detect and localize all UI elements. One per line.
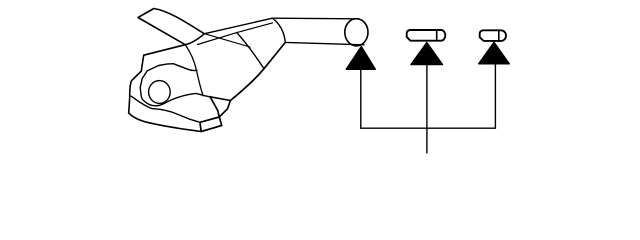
callout arrow 3 (button) xyxy=(479,42,510,64)
bottom tab bracket xyxy=(200,117,222,132)
part 2 pin body xyxy=(407,30,446,41)
arm bottom diagonal xyxy=(230,42,285,100)
part 3 cap divider xyxy=(498,30,500,41)
arrow 3 stem xyxy=(494,64,496,128)
side panel left edge curve xyxy=(185,45,203,96)
notch top edge xyxy=(210,97,230,101)
callout connector line xyxy=(361,127,496,129)
part 3 button body xyxy=(480,30,506,41)
arm crease edge xyxy=(204,34,250,47)
body outer left edge xyxy=(129,55,144,113)
notch left wall xyxy=(210,97,219,117)
body bottom edge xyxy=(129,113,202,132)
side panel right edge xyxy=(237,33,264,69)
callout arrow 1 (lever assembly) xyxy=(346,47,375,70)
callout arrow 2 (pin) xyxy=(411,43,443,65)
notch right wall xyxy=(219,101,230,118)
arrow 2 stem xyxy=(426,65,428,153)
ratchet plate xyxy=(140,64,210,106)
body top edge xyxy=(144,45,186,56)
arm inner top-face edge xyxy=(198,23,273,45)
grip cylinder top line xyxy=(272,17,358,20)
inner lower contour xyxy=(131,96,200,122)
grip cylinder left end arc xyxy=(272,18,285,42)
part 2 cap divider xyxy=(436,30,438,41)
arm top edge xyxy=(204,18,273,34)
grip cylinder bottom line xyxy=(285,42,364,44)
lever release fin xyxy=(138,9,204,45)
pivot hole xyxy=(149,81,171,104)
arrow 1 stem xyxy=(360,69,362,128)
grip end cap ellipse xyxy=(345,19,368,46)
